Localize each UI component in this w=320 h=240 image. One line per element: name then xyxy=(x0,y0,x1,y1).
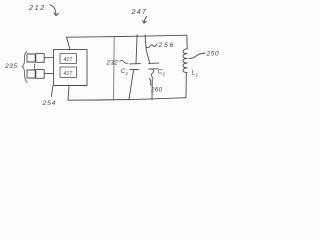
wire connector upper to box xyxy=(44,57,53,59)
svg-text:417: 417 xyxy=(64,71,74,77)
leader 250 squiggle xyxy=(189,53,205,58)
connector upper pair xyxy=(27,54,35,62)
capacitor C1 top lead xyxy=(136,35,137,64)
leader 260 squiggle xyxy=(149,78,152,85)
svg-text:212: 212 xyxy=(28,3,46,12)
capacitor C1 bottom lead xyxy=(129,70,134,100)
leader 254 xyxy=(51,86,52,96)
wire right side lower xyxy=(185,73,187,98)
inductor L1 xyxy=(183,49,187,73)
ellipsis dots between connectors xyxy=(33,64,35,69)
leader 247 arrow xyxy=(144,16,147,23)
svg-text:1: 1 xyxy=(126,71,129,76)
svg-text:247: 247 xyxy=(131,7,148,16)
wire left bottom stub xyxy=(68,86,69,101)
box inner 417 upper xyxy=(60,54,77,64)
wire right side upper xyxy=(186,35,188,49)
box inner 417 lower xyxy=(60,67,77,77)
svg-text:232: 232 xyxy=(106,60,119,67)
capacitor C2 bottom lead xyxy=(151,69,153,100)
leader 232 squiggle xyxy=(120,60,128,63)
wire left top stub xyxy=(67,37,71,49)
svg-text:254: 254 xyxy=(42,100,57,107)
svg-text:260: 260 xyxy=(150,87,163,94)
box 235 outer xyxy=(54,50,88,86)
svg-text:235: 235 xyxy=(4,63,18,70)
wire bottom rail xyxy=(68,98,186,101)
wire top rail xyxy=(67,35,187,37)
leader 212 arrow xyxy=(50,5,56,15)
wire inner vertical xyxy=(113,37,116,100)
brace 235 xyxy=(22,52,27,83)
svg-text:256: 256 xyxy=(158,42,175,49)
leader 256 squiggle xyxy=(146,44,157,48)
capacitor C1 plates xyxy=(130,63,141,65)
svg-text:417: 417 xyxy=(64,57,74,63)
capacitor C2 top lead xyxy=(145,35,150,63)
capacitor C2 plates xyxy=(149,62,159,64)
svg-text:1: 1 xyxy=(196,73,199,78)
wire connector lower to box xyxy=(44,72,53,74)
svg-text:2: 2 xyxy=(162,72,166,77)
connector lower pair xyxy=(27,70,35,78)
svg-text:250: 250 xyxy=(206,51,220,58)
